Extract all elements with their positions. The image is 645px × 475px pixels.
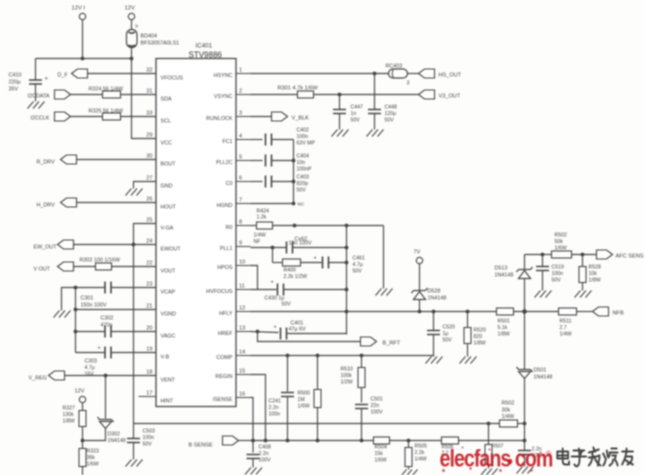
wire R323 to edge [82, 467, 84, 475]
resistor R520 820 1/8W [464, 328, 471, 344]
wire node346 vertical [346, 226, 348, 335]
svg-text:2.2k 1/2W: 2.2k 1/2W [284, 274, 307, 280]
wire pin 9 to Cx62 [251, 247, 287, 249]
svg-text:3: 3 [239, 111, 242, 117]
resistor R323 36k 1/6W [79, 449, 86, 467]
svg-text:2.2k: 2.2k [415, 450, 425, 456]
wire bead to VCC pin 29 [132, 48, 157, 139]
resistor R501 5.1k 1/8W [497, 308, 514, 315]
capacitor C461 4.7u 50V [323, 257, 329, 269]
svg-text:AFC SENS: AFC SENS [616, 254, 644, 260]
ground VCAP jog [54, 311, 71, 318]
IC left pin names [161, 76, 184, 405]
svg-text:HS_OUT: HS_OUT [439, 73, 462, 79]
wire C403 to column [272, 181, 294, 183]
wire pin 14 row [251, 355, 434, 357]
svg-text:4.7μ: 4.7μ [353, 262, 363, 268]
svg-text:NFB: NFB [613, 311, 624, 317]
svg-text:R504: R504 [375, 445, 388, 451]
wire C503 to ground [133, 443, 135, 460]
junction VENT branch [104, 374, 108, 378]
svg-text:1M: 1M [298, 397, 305, 403]
wire pin 5 to C404 [251, 160, 263, 162]
svg-text:29: 29 [146, 133, 152, 139]
svg-text:100V: 100V [371, 410, 384, 416]
svg-text:8: 8 [239, 220, 242, 226]
svg-text:C403: C403 [297, 175, 310, 181]
svg-text:25: 25 [146, 218, 152, 224]
svg-text:C404: C404 [297, 154, 310, 160]
wire C447 to ground [339, 114, 341, 130]
ground C503 [126, 460, 143, 467]
wire RC403 to HS_OUT [408, 73, 419, 75]
svg-text:I2CDATA: I2CDATA [28, 94, 50, 100]
svg-text:EW_OUT: EW_OUT [34, 245, 58, 251]
wire D_F to pin 32 [88, 73, 157, 75]
svg-text:VFOCUS: VFOCUS [161, 76, 184, 82]
svg-text:50V: 50V [552, 278, 562, 284]
svg-text:D528: D528 [428, 289, 441, 295]
svg-text:2.2n: 2.2n [269, 405, 279, 411]
wire pin 3 RUNLOCK [251, 116, 272, 118]
svg-text:50V: 50V [351, 118, 361, 124]
wire R505 to ground [408, 467, 410, 470]
junction B sense node [251, 439, 255, 443]
svg-text:33: 33 [146, 111, 152, 117]
wire node column vertical [293, 140, 295, 204]
svg-text:820: 820 [474, 334, 483, 340]
svg-text:50V: 50V [385, 118, 395, 124]
svg-text:PLL2C: PLL2C [216, 160, 233, 166]
svg-text:26: 26 [146, 197, 152, 203]
wire pin 11 row [251, 289, 277, 291]
IC left pin stubs [139, 74, 157, 397]
svg-text:BOUT: BOUT [161, 162, 177, 168]
wire lower bus 440 [253, 440, 525, 442]
junction C520 on bus [432, 310, 436, 314]
svg-text:220μ: 220μ [9, 80, 21, 86]
junction R327/R323/D302 [81, 439, 85, 443]
svg-text:19: 19 [146, 347, 152, 353]
connector V_BLK [272, 112, 288, 121]
svg-text:17: 17 [146, 391, 152, 397]
capacitor C402 100n 63V MP [266, 134, 272, 146]
junction x524 y423 [523, 422, 527, 426]
wire pin 4 to C402 [251, 139, 263, 141]
capacitor C303 4.7u 16V [105, 347, 111, 359]
svg-text:HOUT: HOUT [161, 205, 177, 211]
capacitor C301 150n 100V [105, 282, 111, 294]
node NC pin7 [292, 202, 296, 206]
wire D302 to junction [83, 429, 106, 441]
svg-text:18: 18 [146, 370, 152, 376]
watermark chinese 电子发烧友 [557, 448, 633, 467]
svg-text:I2CCLK: I2CCLK [31, 116, 50, 122]
capacitor C401 [281, 328, 287, 340]
svg-text:C520: C520 [443, 325, 456, 331]
ground C410 [28, 102, 45, 109]
junction R424 a [293, 224, 297, 228]
wire C241 branch [287, 356, 289, 392]
svg-text:2.7: 2.7 [560, 325, 567, 331]
capacitor C302 470n [105, 326, 111, 338]
svg-text:R511: R511 [560, 319, 572, 325]
wire 12V to R327 [82, 403, 84, 411]
svg-text:15k: 15k [375, 451, 384, 457]
svg-text:50k: 50k [555, 239, 564, 245]
wire H_DRV to pin 26 [77, 202, 157, 204]
svg-text:VOUT: VOUT [161, 269, 177, 275]
capacitor C501 22n 100V [355, 405, 368, 409]
IC U401 STV9886 body [156, 59, 236, 407]
connector NFB [593, 307, 609, 316]
svg-text:R323: R323 [87, 449, 100, 455]
wire 12V_I down [82, 20, 84, 59]
svg-text:R424: R424 [257, 209, 270, 215]
IC left pin numbers [146, 68, 152, 397]
IC right pin stubs [236, 74, 251, 398]
svg-text:12V: 12V [125, 6, 135, 12]
junction C461 node [345, 261, 349, 265]
svg-text:22n: 22n [371, 403, 380, 409]
svg-text:C519: C519 [552, 265, 565, 271]
svg-text:+: + [98, 346, 101, 352]
diode D302 1N4148 [98, 417, 114, 422]
svg-text:16: 16 [239, 392, 245, 398]
ground pin8 branch [376, 289, 393, 296]
ground R520 [460, 357, 477, 364]
junction R505 node [407, 439, 411, 443]
junction pin21 [74, 308, 78, 312]
svg-text:150n 100V: 150n 100V [81, 303, 107, 309]
svg-text:B SENSE: B SENSE [189, 443, 214, 449]
svg-text:1N4148: 1N4148 [534, 375, 553, 381]
svg-text:7V: 7V [414, 250, 421, 256]
wire rail to C410 [35, 59, 37, 80]
svg-text:14: 14 [239, 350, 245, 356]
svg-text:100k: 100k [341, 373, 353, 379]
wire V_REG to pin 18 [65, 375, 157, 377]
wire R400 to C461 [301, 262, 322, 264]
svg-text:R502: R502 [502, 401, 515, 407]
ground C511 [517, 467, 534, 474]
ground C519 [535, 291, 552, 298]
wire pin 13 row [251, 332, 279, 333]
junction R510 bottom [360, 439, 364, 443]
capacitor C404 10n 100nP [266, 155, 272, 167]
svg-text:5: 5 [239, 155, 242, 161]
svg-text:63V MP: 63V MP [297, 141, 316, 147]
junction R500 bottom [316, 439, 320, 443]
resistor R301 [298, 91, 314, 98]
wire pin 12 HFLY bus [251, 311, 497, 313]
svg-text:C301: C301 [81, 296, 94, 302]
svg-text:C447: C447 [351, 105, 364, 111]
svg-text:1/4W: 1/4W [254, 233, 266, 239]
wire pin 25 jog down [134, 224, 157, 245]
svg-text:VENT: VENT [161, 378, 176, 384]
svg-text:b: b [136, 24, 139, 29]
svg-text:IC401: IC401 [196, 43, 213, 50]
wire pin 7 to node [251, 203, 294, 205]
junction pin9 [271, 246, 275, 250]
svg-text:C448: C448 [385, 105, 398, 111]
svg-text:HREF: HREF [218, 331, 233, 337]
resistor R511 2.7 1/4W [559, 308, 577, 315]
svg-text:HGND: HGND [217, 203, 233, 209]
svg-text:R400: R400 [284, 268, 297, 274]
svg-text:3: 3 [407, 81, 410, 87]
wire R301 to V3_OUT [314, 94, 419, 96]
watermark elecfans.com [440, 445, 553, 472]
connector AFC SENS [597, 250, 613, 259]
resistor R325 [103, 113, 121, 120]
wire pin 8 to R424 [251, 225, 257, 227]
resistor R502 [552, 251, 572, 258]
svg-text:R520: R520 [474, 328, 487, 334]
svg-text:VCC: VCC [161, 141, 172, 147]
svg-text:50V: 50V [443, 338, 453, 344]
wire R507 to ground [488, 465, 490, 469]
svg-text:1/8W: 1/8W [474, 341, 486, 347]
svg-text:1n: 1n [351, 111, 357, 117]
svg-text:11: 11 [239, 284, 245, 290]
wire pin 15 REGIN jog [251, 375, 266, 441]
svg-text:+: + [314, 256, 317, 262]
wire I2CCLK to R325 [71, 116, 103, 118]
svg-text:1/6W: 1/6W [298, 404, 310, 410]
ground C448 [367, 130, 384, 137]
svg-text:1μ: 1μ [443, 331, 449, 337]
svg-text:C461: C461 [353, 256, 366, 262]
junction VCAP node [74, 286, 78, 290]
resistor R504 15k 1/6W [374, 437, 390, 444]
junction node346 on bus [345, 310, 349, 314]
svg-text:1/8W: 1/8W [498, 332, 510, 338]
svg-text:13: 13 [239, 326, 245, 332]
svg-text:9: 9 [239, 241, 242, 247]
capacitor C408 2.2n 100V [252, 441, 254, 453]
svg-text:R327: R327 [63, 406, 76, 412]
resistor R500 [314, 390, 321, 408]
resistor R400 2.2k 1/2W [283, 259, 301, 266]
wire C301 to left node [76, 287, 106, 289]
resistor R327 [79, 411, 86, 427]
svg-text:100n: 100n [297, 134, 309, 140]
svg-text:C303: C303 [85, 359, 98, 365]
wire R510 to C501 [361, 388, 363, 403]
wire bus to R520 [467, 312, 469, 328]
svg-text:1/2W: 1/2W [341, 380, 353, 386]
wire node jog to ground [62, 288, 76, 311]
diode D528 1N4148 [412, 288, 428, 293]
svg-text:V OUT: V OUT [34, 267, 51, 273]
svg-text:R_DRV: R_DRV [37, 160, 56, 166]
wire pin 20 row [112, 331, 157, 333]
svg-text:10n: 10n [297, 160, 306, 166]
wire R528 node down [582, 255, 584, 267]
wire pin9 branch down [272, 248, 274, 263]
junction pin15 node [264, 439, 268, 443]
resistor R507 [485, 445, 492, 465]
svg-text:R501: R501 [498, 319, 511, 325]
wire D528 to bus [419, 300, 421, 312]
svg-text:C402: C402 [297, 128, 310, 134]
IC right pin names [206, 73, 233, 403]
svg-text:D501: D501 [534, 368, 547, 374]
svg-text:24: 24 [146, 239, 152, 245]
svg-text:12V I: 12V I [72, 6, 86, 12]
capacitor C403 820p 50V [266, 176, 272, 188]
wire R325 to pin 33 [121, 116, 157, 118]
svg-text:7: 7 [239, 198, 242, 204]
svg-text:1N4148: 1N4148 [108, 438, 126, 444]
svg-text:R0: R0 [226, 225, 233, 231]
svg-text:VCAP: VCAP [161, 290, 176, 296]
wire R510 branch [361, 356, 363, 368]
wire bus to C520 [433, 312, 435, 331]
ground C408 [245, 468, 262, 475]
wire pin 16 ISENSE jog [251, 398, 254, 441]
wire C519 node down [542, 255, 544, 267]
svg-text:120μ: 120μ [385, 111, 397, 117]
svg-text:30: 30 [146, 154, 152, 160]
wire pin 27 GND jog [134, 182, 157, 189]
svg-text:NF: NF [254, 239, 261, 245]
connector V3_OUT [419, 90, 435, 99]
svg-text:2.2n: 2.2n [259, 451, 269, 457]
svg-text:PLL1: PLL1 [220, 246, 233, 252]
junction pin25/pin24 [132, 243, 136, 247]
svg-text:C408: C408 [259, 445, 272, 451]
svg-text:1/4W: 1/4W [560, 332, 572, 338]
svg-text:12V: 12V [75, 389, 85, 395]
svg-text:B_RFT: B_RFT [383, 341, 401, 347]
junction R528 node [581, 253, 585, 257]
wire R_DRV to pin 30 [77, 159, 157, 161]
svg-text:V_BLK: V_BLK [292, 116, 310, 122]
wire R327 to junction [82, 427, 84, 441]
ground pin 27 [126, 189, 143, 196]
svg-text:1N4148: 1N4148 [495, 273, 514, 279]
wire C501 to bottom bus [361, 409, 363, 441]
svg-text:5.1k: 5.1k [498, 325, 508, 331]
capacitor C448 120u 50V [368, 110, 381, 114]
svg-text:HFLY: HFLY [219, 311, 233, 317]
wire 12V to bead [131, 20, 133, 31]
svg-text:SCL: SCL [161, 119, 172, 125]
capacitor C503 100n 50V [133, 424, 135, 439]
svg-text:+: + [274, 325, 277, 331]
svg-text:820p: 820p [297, 181, 309, 187]
wire R500 to bottom bus [317, 408, 319, 441]
svg-text:100n: 100n [552, 271, 564, 277]
svg-text:1/4W: 1/4W [415, 457, 427, 463]
svg-text:C503: C503 [143, 429, 156, 435]
svg-text:100V: 100V [259, 458, 272, 464]
wire R324 to pin 31 [121, 94, 157, 96]
wire C511 to ground [524, 455, 526, 467]
svg-text:R502: R502 [555, 233, 568, 239]
svg-text:12: 12 [239, 306, 245, 312]
wire B SENSE to node [239, 440, 254, 442]
wire I2CDATA to R324 [71, 94, 103, 96]
delay-line RC403 [389, 69, 408, 78]
svg-text:16V: 16V [85, 371, 95, 377]
resistor R528 10k 1/8W [579, 267, 586, 283]
wire R511 to NFB [577, 311, 593, 313]
svg-text:1/6W: 1/6W [87, 461, 99, 467]
svg-text:R500: R500 [298, 391, 311, 397]
svg-text:+: + [45, 77, 49, 83]
resistor R302 [96, 263, 112, 270]
wire left vertical bus [75, 288, 77, 353]
wire pin 19 row [112, 352, 157, 354]
capacitor C511 2.2n 50V [518, 451, 531, 455]
svg-text:15: 15 [239, 369, 245, 375]
svg-text:4.7μ: 4.7μ [85, 365, 95, 371]
junction Cx62 node [345, 246, 349, 250]
resistor R324 [103, 91, 121, 98]
wire V_OUT to R302 [74, 266, 96, 268]
svg-text:D302: D302 [108, 432, 121, 438]
svg-text:1/8W: 1/8W [589, 278, 601, 284]
svg-text:V3_OUT: V3_OUT [439, 94, 461, 100]
wire C430 to node346 [284, 289, 347, 291]
wire D501 down to R302 node [524, 379, 526, 441]
wire C241 to bottom bus [287, 397, 289, 441]
junction R520 on bus [466, 310, 470, 314]
svg-text:C0: C0 [226, 181, 233, 187]
wire C461 to node346 [329, 262, 347, 264]
wire long vertical to bottom bus [133, 245, 135, 424]
ground C520 [426, 357, 443, 364]
resistor R506 2.2k [442, 437, 459, 444]
connector HS_OUT [419, 69, 435, 78]
svg-text:1: 1 [239, 68, 242, 74]
resistor R424 [257, 222, 273, 229]
wire C520 to ground [433, 335, 435, 357]
junction R507 branch [487, 422, 491, 426]
svg-text:10k: 10k [589, 271, 598, 277]
connector B_RFT [361, 337, 377, 346]
wire pin 2 VSYNC to R301 [251, 94, 298, 96]
capacitor C241 2.2n 100n [281, 393, 294, 397]
svg-text:50V: 50V [282, 302, 292, 308]
capacitor C520 1u 50V [427, 331, 440, 335]
junction C241 bottom [286, 439, 290, 443]
wire 7V to D528 [419, 264, 421, 291]
svg-text:6: 6 [239, 176, 242, 182]
svg-text:FC1: FC1 [222, 139, 232, 145]
junction C241 top [286, 354, 290, 358]
junction x524 y440 [523, 439, 527, 443]
wire R520 to ground [467, 344, 469, 357]
svg-text:R528: R528 [589, 265, 602, 271]
svg-text:V-B: V-B [161, 355, 170, 361]
svg-text:VSYNC: VSYNC [214, 94, 233, 100]
capacitor Cx62 [287, 242, 293, 254]
wire pin 21 row [76, 309, 157, 311]
svg-text:VAGC: VAGC [161, 334, 176, 340]
wire C408 to ground [252, 459, 254, 468]
svg-text:100nP: 100nP [297, 167, 313, 173]
svg-text:®: ® [546, 450, 552, 459]
svg-text:47μ 6V: 47μ 6V [289, 327, 307, 333]
wire C519 to ground [542, 271, 544, 291]
diode D501 1N4148 [517, 367, 533, 372]
wire C410 to ground [35, 85, 37, 102]
